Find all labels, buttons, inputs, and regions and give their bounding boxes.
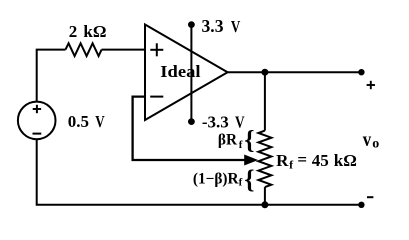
- svg-text:{: {: [244, 125, 254, 154]
- pot bottom lead wire: [264, 187, 266, 205]
- wire resistor to op-amp + input: [102, 49, 145, 51]
- svg-text:3.3: 3.3: [202, 16, 224, 36]
- svg-text:kΩ: kΩ: [83, 22, 106, 41]
- feedback wire from - input to wiper: [133, 97, 245, 160]
- svg-text:=: =: [297, 150, 307, 169]
- - terminal label: [367, 196, 373, 198]
- pot top lead wire: [264, 72, 266, 130]
- voltage source label 0.5 V: [68, 112, 105, 131]
- svg-text:-3.3: -3.3: [202, 112, 229, 131]
- + terminal label: [367, 81, 375, 89]
- voltage source plus sign: [33, 105, 41, 113]
- svg-text:{: {: [244, 165, 254, 194]
- svg-text:f: f: [239, 139, 243, 151]
- resistor R1 2 kΩ zigzag: [66, 43, 102, 56]
- svg-text:V: V: [231, 17, 241, 36]
- supply label 3.3 V: [202, 16, 241, 36]
- svg-text:45: 45: [312, 151, 329, 170]
- svg-text:0.5: 0.5: [68, 112, 89, 131]
- - output terminal dot: [358, 202, 364, 208]
- svg-text:βR: βR: [218, 131, 238, 148]
- svg-text:V: V: [95, 112, 105, 131]
- output node junction dot: [261, 69, 268, 76]
- negative supply dot: [188, 118, 195, 125]
- positive supply rail wire: [190, 25, 192, 122]
- voltage source V1 circle: [18, 102, 56, 140]
- wiper arrowhead: [244, 155, 258, 166]
- svg-text:v: v: [363, 130, 372, 151]
- op-amp noninverting + symbol: [150, 43, 163, 56]
- svg-text:f: f: [239, 177, 243, 189]
- svg-text:R: R: [276, 151, 289, 170]
- output wire from apex to + terminal: [228, 71, 362, 73]
- svg-text:(1−β)R: (1−β)R: [193, 170, 240, 187]
- label (1-beta) Rf: [193, 170, 243, 188]
- pot value label Rf = 45 kΩ: [276, 150, 357, 172]
- svg-text:2: 2: [69, 22, 78, 41]
- output voltage label vo: [363, 130, 380, 151]
- supply label -3.3 V: [202, 112, 245, 131]
- positive supply dot: [188, 21, 195, 28]
- + output terminal dot: [358, 69, 364, 75]
- resistor value label 2 kΩ: [69, 22, 107, 41]
- svg-text:Ideal: Ideal: [160, 62, 200, 81]
- potentiometer Rf zigzag: [258, 131, 271, 188]
- svg-text:kΩ: kΩ: [334, 151, 357, 170]
- op-amp inverting - symbol: [150, 96, 163, 98]
- svg-text:o: o: [372, 136, 379, 151]
- pot bottom junction dot: [261, 201, 268, 208]
- op-amp U1 triangle: [145, 25, 228, 121]
- wire top-left: source to resistor: [37, 50, 66, 102]
- wire source bottom down and along bottom: [37, 139, 362, 205]
- label beta Rf: [218, 131, 243, 151]
- voltage source minus sign: [33, 133, 42, 135]
